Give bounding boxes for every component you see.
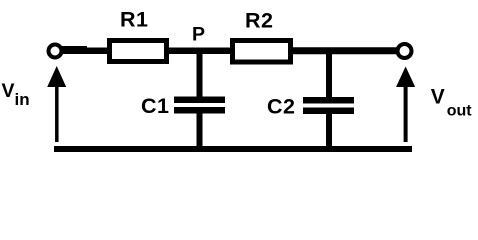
Vin arrow shaft <box>55 85 59 142</box>
ground rail <box>54 146 412 152</box>
wire R1 to R2 (through node P) <box>166 47 234 54</box>
svg-text:Vin: Vin <box>2 80 30 109</box>
wire node P down to C1 top plate <box>197 50 203 97</box>
wire C2 bottom plate to ground rail <box>326 114 332 150</box>
wire R2 to output terminal (through C2 junction) <box>290 47 398 54</box>
capacitor C1 top plate <box>174 97 225 104</box>
svg-text:Vout: Vout <box>431 86 473 120</box>
wire C2 junction down to C2 top plate <box>326 50 332 97</box>
Vout arrowhead <box>396 67 415 88</box>
Vout arrow shaft <box>404 86 408 142</box>
capacitor C1 bottom plate <box>174 107 225 114</box>
wire input terminal to R1 (thick stub) <box>61 46 87 54</box>
svg-text:P: P <box>192 24 205 46</box>
Vin arrowhead <box>47 66 66 87</box>
svg-text:R1: R1 <box>120 8 148 32</box>
capacitor C2 top plate <box>303 97 354 104</box>
wire to R1 left pin <box>85 47 110 54</box>
svg-text:C1: C1 <box>141 94 169 118</box>
resistor R2 <box>233 41 291 63</box>
capacitor C2 bottom plate <box>303 108 354 115</box>
output terminal circle <box>398 44 412 58</box>
input terminal circle <box>49 45 62 58</box>
svg-text:C2: C2 <box>267 95 295 119</box>
wire C1 bottom plate to ground rail <box>197 114 203 151</box>
svg-text:R2: R2 <box>245 9 273 33</box>
resistor R1 <box>110 41 167 62</box>
